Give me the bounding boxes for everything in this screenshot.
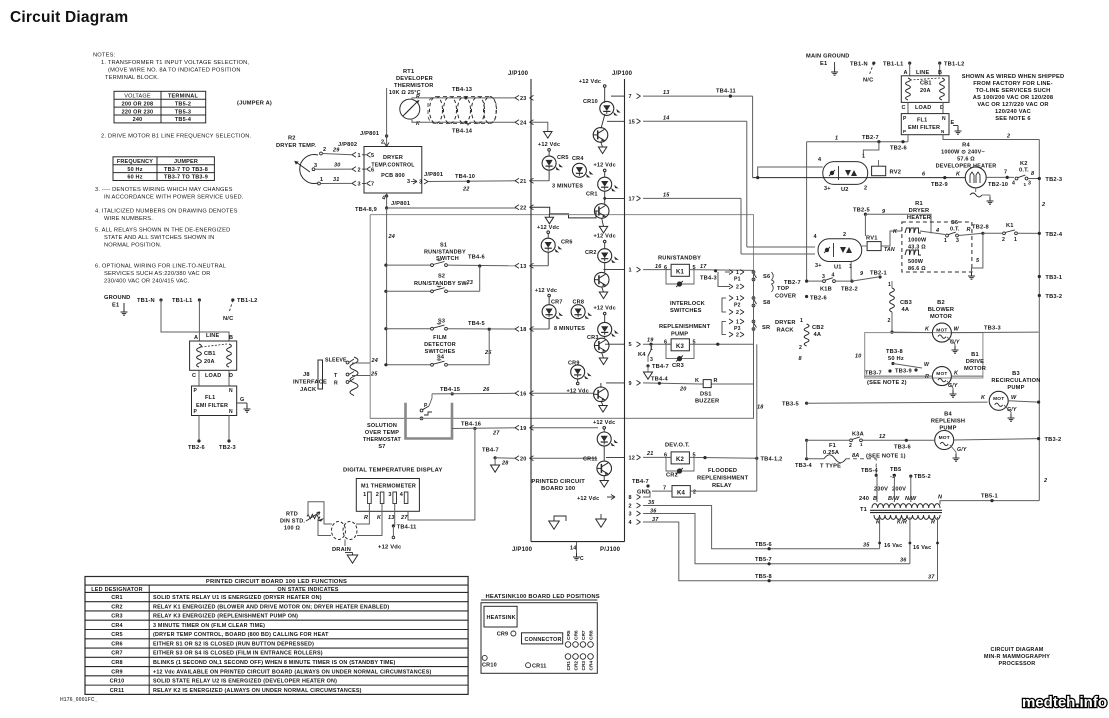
svg-text:K3: K3 bbox=[676, 344, 685, 350]
svg-text:CR1: CR1 bbox=[566, 661, 572, 671]
svg-text:1: 1 bbox=[629, 268, 632, 274]
svg-text:18: 18 bbox=[757, 405, 764, 411]
interlock connector P1 bbox=[729, 270, 733, 273]
svg-text:TB4-4: TB4-4 bbox=[651, 377, 668, 383]
svg-text:N/C: N/C bbox=[863, 78, 873, 84]
svg-text:CR9: CR9 bbox=[111, 669, 123, 675]
svg-text:1: 1 bbox=[944, 238, 947, 244]
wire 29 bbox=[322, 154, 352, 155]
svg-text:2: 2 bbox=[358, 167, 361, 173]
svg-text:TB1-L2: TB1-L2 bbox=[237, 298, 257, 304]
svg-text:14: 14 bbox=[663, 116, 670, 122]
svg-text:TB3-7 TO TB3-8: TB3-7 TO TB3-8 bbox=[164, 167, 208, 173]
svg-text:22: 22 bbox=[462, 187, 470, 193]
wire 19 inside pcb bbox=[531, 427, 598, 429]
solid state relay U2 bbox=[823, 162, 868, 185]
svg-text:INTERLOCK: INTERLOCK bbox=[670, 301, 706, 307]
svg-text:K4: K4 bbox=[638, 352, 646, 358]
svg-text:PRINTED CIRCUIT: PRINTED CIRCUIT bbox=[531, 479, 585, 485]
led CR3 across K3 bbox=[666, 344, 694, 358]
svg-text:CR8: CR8 bbox=[589, 630, 595, 640]
coax shield loops bbox=[430, 97, 443, 124]
svg-text:TB4-1,2: TB4-1,2 bbox=[761, 457, 783, 463]
enclosure box bbox=[370, 215, 753, 419]
svg-text:TB4-10: TB4-10 bbox=[455, 174, 475, 180]
svg-text:35: 35 bbox=[863, 543, 870, 549]
svg-text:12: 12 bbox=[629, 455, 636, 461]
solid state relay U1 bbox=[818, 239, 862, 262]
svg-text:TB4-15: TB4-15 bbox=[440, 387, 460, 393]
svg-text:TB3-4: TB3-4 bbox=[795, 463, 812, 469]
svg-text:240: 240 bbox=[859, 496, 869, 502]
svg-text:TEMP.CONTROL: TEMP.CONTROL bbox=[371, 163, 415, 169]
svg-text:SLEEVE: SLEEVE bbox=[325, 358, 347, 364]
svg-text:B3: B3 bbox=[1012, 371, 1020, 377]
svg-text:CR7: CR7 bbox=[551, 300, 563, 306]
svg-text:CR10: CR10 bbox=[583, 99, 598, 105]
svg-text:TB4-13: TB4-13 bbox=[452, 87, 472, 93]
leds CR1-CR4 positions bbox=[565, 654, 571, 660]
svg-text:CB1: CB1 bbox=[204, 351, 216, 357]
svg-text:J/P801: J/P801 bbox=[391, 201, 410, 207]
svg-text:D: D bbox=[229, 373, 233, 379]
svg-text:J8: J8 bbox=[303, 372, 310, 378]
svg-text:EMI FILTER: EMI FILTER bbox=[196, 403, 228, 409]
svg-text:20: 20 bbox=[520, 456, 527, 462]
svg-text:+12 Vdc: +12 Vdc bbox=[579, 79, 601, 85]
svg-text:FLOODED: FLOODED bbox=[708, 468, 737, 474]
svg-text:TB5-2: TB5-2 bbox=[175, 101, 191, 107]
svg-text:K/R: K/R bbox=[897, 520, 907, 526]
svg-text:FREQUENCY: FREQUENCY bbox=[117, 159, 153, 165]
svg-text:CONNECTOR: CONNECTOR bbox=[525, 637, 562, 643]
svg-text:STATE AND ALL SWITCHES SHOWN I: STATE AND ALL SWITCHES SHOWN IN bbox=[104, 235, 214, 241]
relay K4 coil bbox=[652, 490, 672, 492]
svg-text:A: A bbox=[904, 70, 908, 76]
svg-text:57.6 Ω: 57.6 Ω bbox=[957, 157, 975, 163]
svg-text:LOAD: LOAD bbox=[205, 373, 221, 379]
svg-text:2: 2 bbox=[736, 310, 739, 316]
EMI filter FL1 bbox=[901, 114, 949, 135]
svg-text:1: 1 bbox=[835, 136, 838, 142]
svg-text:29: 29 bbox=[332, 148, 340, 154]
svg-text:1: 1 bbox=[363, 492, 366, 498]
svg-text:SEE NOTE 6: SEE NOTE 6 bbox=[995, 116, 1031, 122]
svg-text:CIRCUIT DIAGRAM: CIRCUIT DIAGRAM bbox=[990, 647, 1043, 653]
svg-text:B: B bbox=[938, 70, 942, 76]
thermal cutout below R4 bbox=[975, 188, 977, 192]
svg-text:16 Vac: 16 Vac bbox=[913, 545, 931, 551]
switch S8 top cover bbox=[752, 297, 755, 300]
svg-text:200 OR 208: 200 OR 208 bbox=[122, 101, 154, 107]
wire TB4-16 to thermometer pin 27 bbox=[408, 429, 475, 521]
frequency selection table bbox=[113, 157, 214, 181]
wire K to dryer heater bbox=[881, 231, 902, 246]
svg-text:TB1-N: TB1-N bbox=[137, 298, 155, 304]
svg-text:P/J100: P/J100 bbox=[600, 547, 621, 553]
svg-text:G/Y: G/Y bbox=[957, 447, 967, 453]
svg-text:23: 23 bbox=[466, 280, 474, 286]
svg-text:100 Ω: 100 Ω bbox=[284, 526, 301, 532]
svg-text:PRINTED CIRCUIT BOARD 100 LED: PRINTED CIRCUIT BOARD 100 LED FUNCTIONS bbox=[206, 579, 347, 585]
svg-text:2: 2 bbox=[1006, 134, 1010, 140]
svg-text:SOLUTION: SOLUTION bbox=[367, 423, 397, 429]
heatsink board outline bbox=[481, 603, 597, 674]
svg-text:8A: 8A bbox=[852, 453, 859, 459]
svg-text:TB5: TB5 bbox=[890, 467, 901, 473]
svg-text:3: 3 bbox=[1028, 181, 1031, 187]
svg-text:CR4: CR4 bbox=[589, 661, 595, 671]
svg-text:J/P100: J/P100 bbox=[508, 71, 529, 77]
svg-text:T1: T1 bbox=[860, 507, 867, 513]
svg-text:MOT: MOT bbox=[936, 328, 947, 334]
svg-text:K3A: K3A bbox=[852, 432, 864, 438]
svg-text:35: 35 bbox=[648, 500, 655, 506]
wire TB1-L2 to CB1 bbox=[939, 63, 941, 76]
svg-text:TB1-L1: TB1-L1 bbox=[883, 62, 903, 68]
svg-text:GND: GND bbox=[637, 490, 650, 496]
svg-text:S1: S1 bbox=[440, 243, 447, 249]
svg-text:CB3: CB3 bbox=[900, 300, 912, 306]
svg-text:RTD: RTD bbox=[286, 512, 298, 518]
svg-text:CR4: CR4 bbox=[111, 623, 123, 629]
svg-text:16 Vac: 16 Vac bbox=[884, 543, 902, 549]
svg-text:1: 1 bbox=[800, 318, 803, 324]
svg-text:FILM: FILM bbox=[433, 335, 447, 341]
svg-text:GROUND: GROUND bbox=[104, 295, 130, 301]
svg-text:TAN: TAN bbox=[884, 247, 895, 253]
svg-text:INTERFACE: INTERFACE bbox=[293, 380, 327, 386]
svg-text:240: 240 bbox=[133, 117, 143, 123]
terminal TB2-4 bbox=[1038, 232, 1041, 235]
svg-text:S6: S6 bbox=[763, 274, 770, 280]
svg-text:MOTOR: MOTOR bbox=[930, 314, 952, 320]
svg-text:26: 26 bbox=[482, 387, 490, 393]
svg-text:LED DESIGNATOR: LED DESIGNATOR bbox=[91, 587, 143, 593]
svg-text:U1: U1 bbox=[834, 265, 842, 271]
svg-text:SHOWN AS WIRED WHEN SHIPPED: SHOWN AS WIRED WHEN SHIPPED bbox=[962, 74, 1065, 80]
wire U1 pin1 down bbox=[850, 262, 852, 282]
svg-text:MOT: MOT bbox=[939, 435, 950, 441]
svg-text:PCB 800: PCB 800 bbox=[381, 173, 405, 179]
svg-text:19: 19 bbox=[520, 426, 527, 432]
circuit breaker CB1 bbox=[901, 76, 949, 103]
svg-text:RELAY: RELAY bbox=[712, 483, 732, 489]
svg-text:TB1-N: TB1-N bbox=[850, 62, 868, 68]
switch S6 top cover bbox=[752, 271, 755, 274]
wire pin 8 to K4 row bbox=[643, 491, 650, 497]
svg-text:16: 16 bbox=[655, 264, 662, 270]
svg-text:DEVELOPER: DEVELOPER bbox=[396, 76, 433, 82]
svg-text:Circuit Diagram: Circuit Diagram bbox=[10, 9, 128, 26]
terminal TB3-2 bbox=[1038, 294, 1041, 297]
svg-text:22: 22 bbox=[520, 205, 527, 211]
wire 8A dashed to TB5-4 bbox=[846, 459, 876, 476]
svg-text:3: 3 bbox=[314, 163, 317, 169]
svg-text:2. DRIVE MOTOR B1 LINE FREQUEN: 2. DRIVE MOTOR B1 LINE FREQUENCY SELECTI… bbox=[101, 134, 252, 140]
svg-text:TB2-1: TB2-1 bbox=[870, 271, 887, 277]
svg-text:TB3-2: TB3-2 bbox=[1045, 437, 1062, 443]
svg-text:S8: S8 bbox=[763, 300, 770, 306]
svg-text:TB5-3: TB5-3 bbox=[175, 109, 191, 115]
led CR8 bbox=[571, 305, 585, 319]
svg-text:K2: K2 bbox=[1020, 161, 1028, 167]
svg-text:R1: R1 bbox=[915, 201, 923, 207]
svg-text:BLOWER: BLOWER bbox=[928, 307, 954, 313]
svg-text:TB1-L2: TB1-L2 bbox=[944, 62, 964, 68]
svg-text:TB4-7: TB4-7 bbox=[652, 364, 669, 370]
svg-text:J/P801: J/P801 bbox=[424, 172, 443, 178]
wire U2 pin1 to TB2-7 bbox=[863, 142, 879, 158]
svg-text:B1: B1 bbox=[971, 352, 979, 358]
svg-text:PUMP: PUMP bbox=[1007, 385, 1024, 391]
svg-text:21: 21 bbox=[520, 179, 527, 185]
svg-text:DRIVE: DRIVE bbox=[966, 359, 984, 365]
svg-text:TB2-10: TB2-10 bbox=[988, 182, 1008, 188]
svg-text:FL1: FL1 bbox=[205, 395, 215, 401]
svg-text:CR10: CR10 bbox=[482, 663, 497, 669]
svg-text:+12 Vdc: +12 Vdc bbox=[593, 420, 615, 426]
svg-text:NORMAL POSITION.: NORMAL POSITION. bbox=[104, 243, 162, 249]
right rail vertical wire 2 bbox=[1038, 140, 1040, 501]
svg-text:37: 37 bbox=[928, 575, 935, 581]
svg-text:CR9: CR9 bbox=[497, 632, 509, 638]
svg-text:2: 2 bbox=[381, 140, 384, 146]
heatsink block bbox=[484, 606, 517, 627]
svg-text:NOTES:: NOTES: bbox=[93, 53, 116, 59]
svg-text:TB2-6: TB2-6 bbox=[188, 445, 205, 451]
svg-text:13: 13 bbox=[388, 515, 395, 521]
svg-text:(SEE NOTE 2): (SEE NOTE 2) bbox=[867, 380, 907, 386]
svg-text:CR11: CR11 bbox=[583, 457, 598, 463]
led CR11 position bbox=[526, 663, 531, 668]
svg-text:CR7: CR7 bbox=[111, 651, 123, 657]
wire FL1 N1 to right rail bbox=[943, 135, 1039, 140]
svg-text:TB5-7: TB5-7 bbox=[755, 557, 772, 563]
svg-text:RV2: RV2 bbox=[890, 170, 902, 176]
svg-text:P3: P3 bbox=[734, 326, 741, 332]
svg-text:+12 Vdc: +12 Vdc bbox=[594, 306, 616, 312]
svg-text:DS1: DS1 bbox=[700, 392, 712, 398]
svg-text:TB4-3: TB4-3 bbox=[700, 276, 717, 282]
svg-text:8 MINUTES: 8 MINUTES bbox=[554, 326, 585, 332]
svg-text:A: A bbox=[194, 335, 198, 341]
svg-text:TB3-2: TB3-2 bbox=[1045, 294, 1062, 300]
svg-text:TB5-6: TB5-6 bbox=[755, 542, 772, 548]
svg-text:TB2-7: TB2-7 bbox=[784, 280, 801, 286]
svg-text:RELAY K1 ENERGIZED (BLOWER AND: RELAY K1 ENERGIZED (BLOWER AND DRIVE MOT… bbox=[153, 604, 389, 610]
svg-text:TB2-7: TB2-7 bbox=[862, 135, 879, 141]
svg-text:CR6: CR6 bbox=[111, 641, 123, 647]
wire 24 inside pcb bbox=[531, 122, 548, 131]
wire 22 to pin 22 bbox=[387, 207, 516, 209]
svg-text:12: 12 bbox=[879, 434, 886, 440]
wire R to pin 23 bbox=[412, 98, 516, 100]
svg-text:CR11: CR11 bbox=[532, 664, 547, 670]
terminal TB2-10 bbox=[1006, 176, 1009, 179]
wire 18 bus vertical bbox=[753, 270, 755, 418]
thermometer M1 bbox=[356, 479, 419, 512]
svg-text:R: R bbox=[931, 520, 935, 526]
svg-text:3: 3 bbox=[388, 492, 391, 498]
svg-text:2: 2 bbox=[736, 333, 739, 339]
svg-text:BLINKS (1 SECOND ON,1 SECOND O: BLINKS (1 SECOND ON,1 SECOND OFF) WHEN 8… bbox=[153, 660, 396, 666]
svg-text:EITHER S1 OR S2 IS CLOSED (RUN: EITHER S1 OR S2 IS CLOSED (RUN BUTTON DE… bbox=[153, 641, 314, 647]
svg-text:16: 16 bbox=[520, 391, 527, 397]
svg-text:TB4-11: TB4-11 bbox=[716, 89, 736, 95]
svg-text:DRYER: DRYER bbox=[383, 155, 403, 161]
svg-text:R: R bbox=[364, 515, 368, 521]
wire RTD to shield bbox=[318, 519, 331, 536]
svg-text:FROM FACTORY FOR LINE-: FROM FACTORY FOR LINE- bbox=[973, 81, 1053, 87]
svg-text:WIRE NUMBERS.: WIRE NUMBERS. bbox=[104, 216, 153, 222]
svg-text:19: 19 bbox=[647, 338, 654, 344]
svg-text:R: R bbox=[714, 378, 718, 384]
svg-text:50 Hz: 50 Hz bbox=[888, 356, 904, 362]
svg-text:2: 2 bbox=[693, 490, 696, 496]
led CR10 position bbox=[482, 655, 487, 660]
svg-text:4. ITALICIZED NUMBERS ON DRAWI: 4. ITALICIZED NUMBERS ON DRAWING DENOTES bbox=[95, 209, 238, 215]
svg-text:B: B bbox=[229, 335, 233, 341]
svg-text:3: 3 bbox=[407, 179, 410, 185]
connector J/P801 bottom bbox=[386, 193, 388, 208]
svg-text:3+: 3+ bbox=[824, 186, 831, 192]
terminal TB1-L2 bbox=[938, 62, 941, 65]
wire 13 inside pcb bbox=[531, 265, 548, 267]
svg-text:1: 1 bbox=[888, 282, 891, 288]
wire CB1 to FL1 (left) bbox=[198, 370, 200, 386]
svg-text:M1 THERMOMETER: M1 THERMOMETER bbox=[361, 484, 416, 490]
svg-text:2: 2 bbox=[864, 186, 867, 192]
wire 25 from J8 bbox=[352, 375, 370, 377]
svg-text:+12 Vdc: +12 Vdc bbox=[535, 288, 557, 294]
driver transistor for pin 9 bbox=[594, 387, 609, 402]
svg-text:TOP: TOP bbox=[777, 286, 789, 292]
EMI filter FL1 (left) bbox=[192, 386, 237, 416]
svg-text:18: 18 bbox=[520, 327, 527, 333]
switch SR dryer rack bbox=[752, 320, 755, 323]
svg-text:86.6 Ω: 86.6 Ω bbox=[908, 266, 926, 272]
svg-text:4A: 4A bbox=[902, 307, 910, 313]
wire 31 bbox=[320, 182, 352, 184]
breaker CB3 bbox=[880, 276, 892, 278]
svg-text:TB3-8: TB3-8 bbox=[886, 349, 903, 355]
svg-text:120/240 VAC: 120/240 VAC bbox=[995, 109, 1031, 115]
wire U2 pin 4 feed bbox=[758, 167, 823, 178]
svg-text:J/P801: J/P801 bbox=[360, 131, 379, 137]
shielded cable bbox=[332, 522, 346, 540]
svg-text:28: 28 bbox=[501, 461, 509, 467]
svg-text:TB1-L1: TB1-L1 bbox=[172, 298, 192, 304]
wire 16 inside pcb bbox=[531, 392, 594, 394]
svg-text:2: 2 bbox=[1043, 478, 1047, 484]
svg-text:E1: E1 bbox=[820, 61, 827, 67]
svg-text:DIN STD.: DIN STD. bbox=[280, 519, 305, 525]
terminal TB2-9 bbox=[943, 176, 946, 179]
svg-text:TB4-5: TB4-5 bbox=[468, 321, 485, 327]
svg-text:W: W bbox=[954, 327, 960, 333]
svg-text:CR8: CR8 bbox=[573, 300, 585, 306]
wire 24 vertical bbox=[386, 208, 388, 365]
svg-text:TB4-7: TB4-7 bbox=[482, 448, 499, 454]
svg-text:7: 7 bbox=[629, 94, 632, 100]
svg-text:4: 4 bbox=[1012, 181, 1015, 187]
svg-text:RUN/STANDBY: RUN/STANDBY bbox=[424, 250, 466, 256]
led functions table bbox=[85, 577, 468, 695]
svg-text:4: 4 bbox=[935, 228, 939, 234]
wire 20 buzzer row bbox=[643, 383, 754, 385]
svg-text:P1: P1 bbox=[734, 277, 741, 283]
svg-text:TB4-11: TB4-11 bbox=[397, 525, 417, 531]
svg-text:MOT: MOT bbox=[993, 396, 1004, 402]
svg-text:13: 13 bbox=[663, 90, 670, 96]
svg-text:17: 17 bbox=[700, 264, 707, 270]
svg-text:1: 1 bbox=[320, 177, 323, 183]
svg-text:36: 36 bbox=[650, 509, 657, 515]
svg-text:21: 21 bbox=[646, 451, 654, 457]
svg-text:2: 2 bbox=[323, 147, 326, 153]
svg-text:TB4-7: TB4-7 bbox=[632, 479, 649, 485]
svg-text:B2: B2 bbox=[937, 300, 945, 306]
svg-text:JUMPER: JUMPER bbox=[174, 159, 198, 165]
wire TB2-5 right into R1 box bbox=[865, 214, 931, 233]
svg-text:EITHER S3 OR S4 IS CLOSED (FIL: EITHER S3 OR S4 IS CLOSED (FILM IN ENTRA… bbox=[153, 651, 323, 657]
svg-text:CR3: CR3 bbox=[111, 614, 123, 620]
svg-text:3: 3 bbox=[358, 182, 361, 188]
wire 5 TB2-8 to ground bbox=[972, 233, 983, 272]
svg-text:24: 24 bbox=[388, 234, 396, 240]
terminal TB3-5 bbox=[805, 402, 808, 405]
brace top cover bbox=[772, 272, 775, 292]
svg-text:3 MINUTE TIMER ON (FILM CLEAR: 3 MINUTE TIMER ON (FILM CLEAR TIME) bbox=[153, 623, 265, 629]
led across K1 bbox=[666, 270, 694, 284]
svg-text:R: R bbox=[334, 381, 338, 387]
svg-text:MIN-R MAMMOGRAPHY: MIN-R MAMMOGRAPHY bbox=[984, 654, 1050, 660]
svg-text:15: 15 bbox=[663, 193, 670, 199]
svg-text:THERMOSTAT: THERMOSTAT bbox=[363, 437, 402, 443]
svg-text:1: 1 bbox=[736, 270, 739, 276]
svg-text:2: 2 bbox=[849, 443, 852, 449]
wire TB2-5 vertical from U1 area bbox=[864, 213, 866, 215]
svg-text:CR3: CR3 bbox=[581, 661, 587, 671]
svg-text:TB2-9: TB2-9 bbox=[931, 182, 948, 188]
bus down to TB3-4 bbox=[806, 403, 808, 459]
svg-text:TB5-1: TB5-1 bbox=[981, 494, 998, 500]
svg-text:1: 1 bbox=[736, 296, 739, 302]
dryer temp control board PCB 800 bbox=[364, 147, 422, 194]
svg-text:EMI FILTER: EMI FILTER bbox=[908, 125, 940, 131]
svg-text:TB4-16: TB4-16 bbox=[461, 422, 481, 428]
svg-text:HEATSINK100 BOARD LED POSITION: HEATSINK100 BOARD LED POSITIONS bbox=[486, 594, 600, 600]
svg-text:COVER: COVER bbox=[775, 294, 796, 300]
svg-text:(SEE NOTE 1): (SEE NOTE 1) bbox=[866, 454, 906, 460]
svg-text:LOAD: LOAD bbox=[915, 105, 931, 111]
svg-text:5: 5 bbox=[371, 153, 374, 159]
svg-text:TB4-6: TB4-6 bbox=[468, 255, 485, 261]
svg-text:RELAY K3 ENERGIZED (REPLENISHM: RELAY K3 ENERGIZED (REPLENISHMENT PUMP O… bbox=[153, 614, 298, 620]
svg-text:2: 2 bbox=[629, 504, 632, 510]
svg-text:J/P100: J/P100 bbox=[512, 547, 533, 553]
svg-text:27: 27 bbox=[492, 431, 500, 437]
thermostat S7 solution over temp bbox=[406, 403, 453, 439]
svg-text:P: P bbox=[194, 409, 198, 415]
svg-text:OVER TEMP: OVER TEMP bbox=[365, 430, 399, 436]
svg-text:TB4-14: TB4-14 bbox=[452, 129, 473, 135]
svg-text:CR2: CR2 bbox=[585, 250, 597, 256]
svg-text:2: 2 bbox=[843, 232, 846, 238]
svg-text:1: 1 bbox=[860, 442, 863, 447]
terminal TB2-6 (top) bbox=[901, 140, 904, 143]
